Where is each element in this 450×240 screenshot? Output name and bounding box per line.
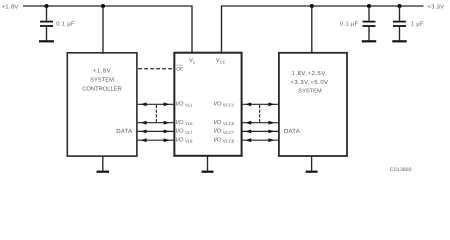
junction (system supply tap): [310, 4, 314, 8]
svg-text:VL6: VL6: [185, 121, 193, 126]
svg-text:I/O: I/O: [214, 101, 222, 108]
svg-text:CS13860: CS13860: [390, 167, 412, 173]
wire OE dashed control line: [138, 68, 173, 70]
wire +1.8V rail: [23, 6, 192, 54]
junction (cap 1uF tap): [397, 4, 401, 8]
block: +1.8V system controller: [67, 53, 137, 156]
wire data bus row 2 (right) with arrows: [242, 121, 278, 125]
svg-text:VCC6: VCC6: [223, 121, 235, 126]
pin OE label (active low): [176, 65, 184, 72]
svg-text:+3.3V: +3.3V: [427, 4, 444, 11]
svg-text:+1.8V: +1.8V: [2, 4, 19, 11]
wire data bus row 1 (left) with arrows: [138, 102, 174, 106]
wire data bus row 2 (left) with arrows: [138, 121, 174, 125]
capacitor 0.1uF (3.3V rail): [363, 6, 376, 40]
wire data bus row 4 (right) with arrows: [242, 138, 278, 142]
svg-text:CONTROLLER: CONTROLLER: [82, 86, 122, 93]
svg-text:+3.3V,+5.0V: +3.3V,+5.0V: [290, 79, 328, 86]
svg-text:CC: CC: [220, 60, 226, 65]
svg-text:VCC1: VCC1: [223, 103, 235, 108]
junction (cap 0.1uF tap): [44, 4, 48, 8]
wire +3.3V rail: [222, 6, 424, 54]
svg-text:VL8: VL8: [185, 139, 193, 144]
wire supply drop to system: [311, 6, 313, 54]
svg-text:1.8V,+2.5V,: 1.8V,+2.5V,: [292, 70, 328, 77]
svg-text:VL7: VL7: [185, 130, 193, 135]
dashed continuation (left bus): [155, 105, 157, 122]
junction (cap 0.1uF tap, 3.3V rail): [367, 4, 371, 8]
ground (system controller): [97, 156, 110, 173]
svg-text:0.1 µF: 0.1 µF: [56, 21, 75, 28]
svg-text:VCC7: VCC7: [223, 130, 235, 135]
svg-text:DATA: DATA: [284, 128, 300, 135]
junction (controller supply tap): [101, 4, 105, 8]
svg-text:VL1: VL1: [185, 103, 193, 108]
ground (cap 0.1uF, 3.3V rail): [362, 40, 376, 42]
svg-text:0.1 µF: 0.1 µF: [340, 21, 359, 28]
svg-text:I/O: I/O: [214, 128, 222, 135]
svg-text:I/O: I/O: [176, 137, 184, 144]
ground (level translator): [202, 156, 214, 173]
capacitor 1uF: [393, 6, 406, 40]
svg-text:+1.8V: +1.8V: [93, 67, 111, 74]
block: level translator: [174, 53, 241, 156]
wire data bus row 3 (right) with arrows: [242, 130, 278, 134]
svg-text:SYSTEM: SYSTEM: [298, 89, 322, 95]
wire data bus row 3 (left) with arrows: [138, 130, 174, 134]
wire supply drop to system controller: [102, 6, 104, 54]
svg-text:SYSTEM: SYSTEM: [90, 76, 114, 83]
svg-text:I/O: I/O: [214, 137, 222, 144]
ground (multi-voltage system): [306, 156, 318, 173]
wire data bus row 4 (left) with arrows: [138, 138, 174, 142]
svg-text:1 µF: 1 µF: [411, 22, 424, 28]
wire data bus row 1 (right) with arrows: [242, 102, 278, 106]
svg-text:I/O: I/O: [176, 119, 184, 126]
svg-text:DATA: DATA: [116, 128, 132, 135]
block: multi-voltage system: [279, 53, 347, 156]
capacitor 0.1uF (1.8V rail): [40, 6, 53, 40]
ground (cap 0.1uF, 1.8V rail): [39, 40, 54, 42]
dashed continuation (right bus): [259, 105, 261, 122]
svg-text:OE: OE: [176, 66, 184, 72]
svg-text:I/O: I/O: [214, 119, 222, 126]
ground (cap 1uF): [392, 40, 406, 42]
svg-text:I/O: I/O: [176, 101, 184, 108]
svg-text:I/O: I/O: [176, 128, 184, 135]
svg-text:VCC8: VCC8: [223, 139, 235, 144]
